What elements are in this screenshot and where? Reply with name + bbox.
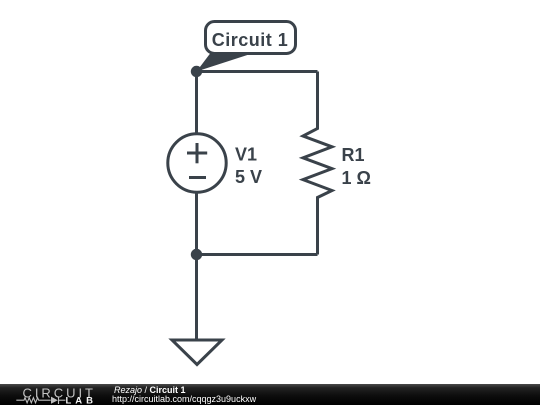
wire left lower (V1 bottom to node B): [195, 193, 198, 255]
svg-text:R1: R1: [342, 145, 365, 165]
svg-text:Circuit 1: Circuit 1: [212, 30, 289, 50]
node A junction dot: [192, 67, 200, 75]
label 1 Ω: [342, 168, 371, 188]
svg-text:1 Ω: 1 Ω: [342, 168, 371, 188]
node B junction dot: [192, 250, 200, 258]
CircuitLab logo: [0, 384, 110, 405]
node label callout "Circuit 1": [197, 22, 296, 72]
svg-text:LAB: LAB: [66, 395, 94, 405]
svg-text:V1: V1: [235, 145, 257, 165]
svg-text:5 V: 5 V: [235, 167, 262, 187]
wire left upper (node A to V1 top): [195, 72, 198, 135]
wire top horizontal (node A to resistor top): [197, 70, 318, 73]
footer url line: [112, 395, 256, 404]
label R1: [342, 145, 365, 165]
resistor R1: [303, 72, 332, 255]
label V1: [235, 145, 257, 165]
ground: [172, 255, 222, 365]
label 5 V: [235, 167, 262, 187]
footer bar: [0, 384, 540, 405]
voltage source V1: [168, 134, 226, 192]
wire bottom horizontal (node B to resistor bottom): [197, 253, 318, 256]
label Circuit 1: [212, 30, 289, 50]
footer title line: [114, 386, 186, 395]
